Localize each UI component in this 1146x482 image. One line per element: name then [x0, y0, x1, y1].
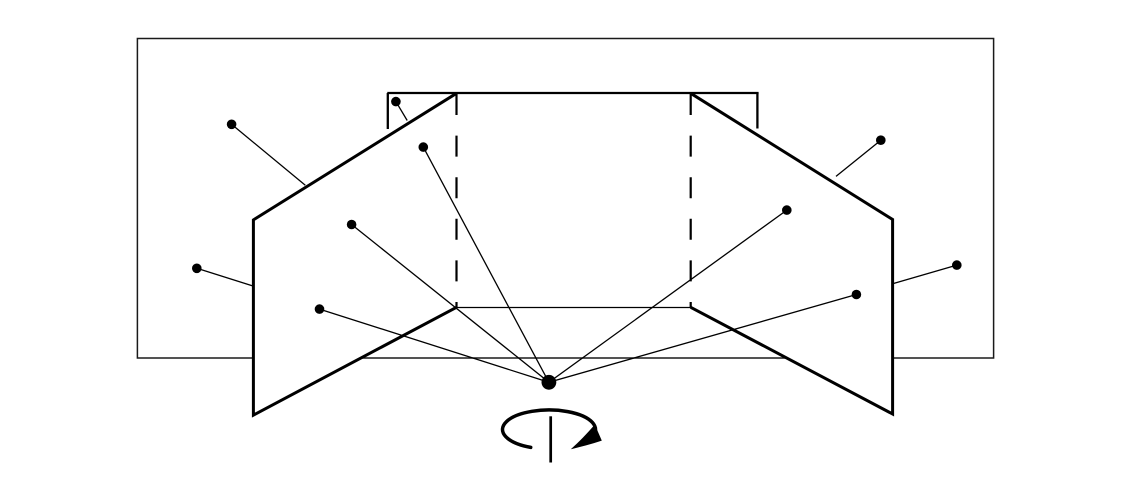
photon dot 3 [419, 142, 429, 152]
ray to photon 8 [549, 295, 857, 383]
ray to blocked photon 2 [396, 102, 407, 121]
rotation axis line [549, 416, 552, 462]
rotation arrow arc [503, 410, 596, 447]
left mirror hidden edge (dashed) [455, 94, 457, 307]
ray to photon 7 [549, 210, 787, 382]
photon dot 5 [192, 264, 202, 274]
photon dot 9 [876, 135, 886, 145]
screen left edge [387, 93, 389, 129]
photon dot 1 [227, 120, 237, 130]
photon dot 8 [852, 290, 862, 300]
rotating source dot [542, 375, 557, 390]
screen top edge [387, 92, 758, 94]
ray to blocked photon 1 [232, 124, 306, 185]
ray to blocked photon 10 [893, 265, 957, 284]
outer wall rectangle [137, 39, 993, 359]
screen right edge [756, 93, 758, 129]
screen bottom hidden-front edge [457, 307, 691, 309]
right mirror hidden edge (dashed) [690, 94, 692, 307]
ray to photon 3 [423, 147, 549, 382]
photon dot 6 [315, 304, 325, 314]
ray to blocked photon 5 [197, 268, 254, 286]
photon dot 7 [782, 205, 792, 215]
ray to photon 4 [352, 225, 549, 383]
photon dot 2 [391, 97, 401, 107]
photon dot 10 [952, 260, 962, 270]
left mirror panel [253, 93, 456, 415]
photon dot 4 [347, 220, 357, 230]
right mirror panel [691, 93, 893, 414]
ray to blocked photon 9 [836, 140, 881, 176]
rotation arrowhead [571, 425, 602, 450]
ray to photon 6 [320, 309, 549, 382]
